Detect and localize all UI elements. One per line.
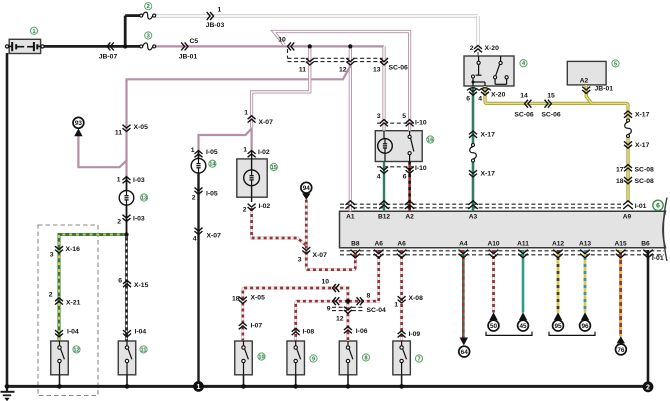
svg-text:3: 3 <box>377 113 381 120</box>
svg-text:I-03: I-03 <box>133 216 145 223</box>
svg-text:B12: B12 <box>378 214 390 221</box>
svg-text:X-20: X-20 <box>485 45 500 52</box>
svg-text:8: 8 <box>364 356 367 362</box>
svg-text:17: 17 <box>616 167 624 174</box>
svg-text:I-07: I-07 <box>251 323 263 330</box>
svg-text:X-08: X-08 <box>409 295 424 302</box>
svg-text:45: 45 <box>519 323 527 330</box>
svg-text:13: 13 <box>373 67 381 74</box>
svg-text:A4: A4 <box>459 241 468 248</box>
svg-text:12: 12 <box>336 316 344 323</box>
svg-text:SC-08: SC-08 <box>635 167 654 174</box>
svg-text:2: 2 <box>49 292 53 299</box>
svg-text:I-02: I-02 <box>258 149 270 156</box>
svg-text:I-10: I-10 <box>415 165 427 172</box>
svg-text:2: 2 <box>192 195 196 202</box>
svg-text:JB-03: JB-03 <box>206 22 225 29</box>
svg-text:1: 1 <box>117 177 121 184</box>
svg-text:11: 11 <box>299 67 306 74</box>
svg-text:15: 15 <box>547 93 555 100</box>
svg-text:I-10: I-10 <box>415 120 427 127</box>
svg-text:I-01: I-01 <box>652 255 664 262</box>
svg-text:1: 1 <box>191 147 195 154</box>
svg-text:B8: B8 <box>351 241 360 248</box>
svg-text:13: 13 <box>141 196 147 202</box>
svg-text:10: 10 <box>258 355 264 361</box>
svg-text:X-07: X-07 <box>313 252 328 259</box>
svg-text:1: 1 <box>394 302 398 309</box>
svg-text:JB-01: JB-01 <box>179 54 198 61</box>
svg-text:9: 9 <box>312 357 315 363</box>
svg-text:94: 94 <box>303 185 311 192</box>
svg-text:JB-07: JB-07 <box>99 53 118 60</box>
svg-text:76: 76 <box>617 347 625 354</box>
svg-text:SC-06: SC-06 <box>514 112 533 119</box>
svg-text:7: 7 <box>417 357 420 363</box>
svg-text:I-01: I-01 <box>635 203 647 210</box>
svg-text:B6: B6 <box>641 241 650 248</box>
svg-text:4: 4 <box>377 174 381 181</box>
svg-text:3: 3 <box>298 257 302 264</box>
svg-text:12: 12 <box>73 347 79 353</box>
svg-text:SC-08: SC-08 <box>635 178 654 185</box>
svg-text:A1: A1 <box>346 214 355 221</box>
svg-text:I-06: I-06 <box>356 328 368 335</box>
svg-text:I-09: I-09 <box>409 331 421 338</box>
svg-text:A15: A15 <box>615 241 627 248</box>
svg-text:SC-06: SC-06 <box>541 112 560 119</box>
svg-text:1: 1 <box>243 147 247 154</box>
svg-text:15: 15 <box>271 165 277 171</box>
svg-text:4: 4 <box>478 96 482 103</box>
svg-text:1: 1 <box>32 29 35 35</box>
svg-text:X-17: X-17 <box>481 132 496 139</box>
svg-text:12: 12 <box>339 67 347 74</box>
svg-text:A11: A11 <box>517 241 529 248</box>
svg-text:1: 1 <box>197 384 201 391</box>
svg-text:SC-04: SC-04 <box>367 307 386 314</box>
svg-text:X-15: X-15 <box>134 282 149 289</box>
svg-text:A2: A2 <box>580 78 589 85</box>
svg-text:X-05: X-05 <box>134 124 149 131</box>
svg-text:X-20: X-20 <box>491 92 506 99</box>
svg-text:1: 1 <box>244 110 248 117</box>
svg-text:6: 6 <box>118 278 122 285</box>
svg-text:2: 2 <box>646 384 650 391</box>
svg-text:A6: A6 <box>397 241 406 248</box>
svg-text:X-16: X-16 <box>66 246 81 253</box>
svg-text:JB-01: JB-01 <box>595 86 614 93</box>
svg-text:I-05: I-05 <box>206 149 218 156</box>
svg-text:X-17: X-17 <box>635 112 650 119</box>
svg-text:10: 10 <box>278 37 286 44</box>
svg-text:11: 11 <box>115 130 122 137</box>
svg-text:A3: A3 <box>469 214 478 221</box>
svg-text:96: 96 <box>581 323 589 330</box>
svg-text:I-08: I-08 <box>303 329 315 336</box>
svg-text:2: 2 <box>117 219 121 226</box>
svg-text:A13: A13 <box>579 241 591 248</box>
svg-text:3: 3 <box>50 252 54 259</box>
svg-text:1: 1 <box>218 7 222 14</box>
svg-text:SC-06: SC-06 <box>389 65 408 72</box>
svg-text:64: 64 <box>461 349 469 356</box>
svg-text:2: 2 <box>147 4 150 10</box>
svg-text:X-07: X-07 <box>207 233 222 240</box>
svg-text:2: 2 <box>243 207 247 214</box>
svg-text:X-21: X-21 <box>66 300 81 307</box>
svg-text:50: 50 <box>490 323 498 330</box>
svg-text:16: 16 <box>427 138 433 144</box>
svg-text:X-07: X-07 <box>259 119 274 126</box>
svg-text:A12: A12 <box>552 241 564 248</box>
svg-text:95: 95 <box>554 323 562 330</box>
svg-text:X-17: X-17 <box>635 142 650 149</box>
svg-text:3: 3 <box>147 34 150 40</box>
svg-text:C5: C5 <box>190 38 199 45</box>
svg-text:4: 4 <box>193 236 197 243</box>
svg-text:11: 11 <box>141 347 147 353</box>
svg-text:2: 2 <box>470 45 474 52</box>
svg-text:I-03: I-03 <box>133 177 145 184</box>
svg-text:8: 8 <box>367 293 371 300</box>
svg-text:A9: A9 <box>623 214 632 221</box>
svg-text:14: 14 <box>209 162 216 168</box>
svg-text:93: 93 <box>75 120 83 127</box>
svg-text:A10: A10 <box>487 241 499 248</box>
svg-text:18: 18 <box>616 178 624 185</box>
svg-text:14: 14 <box>520 93 528 100</box>
svg-text:I-04: I-04 <box>135 329 147 336</box>
svg-text:A6: A6 <box>374 241 383 248</box>
svg-text:5: 5 <box>614 61 617 67</box>
svg-text:18: 18 <box>232 296 240 303</box>
svg-text:6: 6 <box>656 203 660 210</box>
svg-text:9: 9 <box>327 306 331 313</box>
svg-text:I-02: I-02 <box>259 203 271 210</box>
svg-text:X-05: X-05 <box>251 295 266 302</box>
svg-text:5: 5 <box>402 113 406 120</box>
svg-text:I-05: I-05 <box>206 191 218 198</box>
svg-text:A2: A2 <box>405 214 414 221</box>
svg-text:I-04: I-04 <box>67 329 79 336</box>
svg-text:6: 6 <box>403 174 407 181</box>
svg-text:X-17: X-17 <box>481 171 496 178</box>
svg-text:10: 10 <box>321 279 329 286</box>
svg-text:6: 6 <box>466 96 470 103</box>
